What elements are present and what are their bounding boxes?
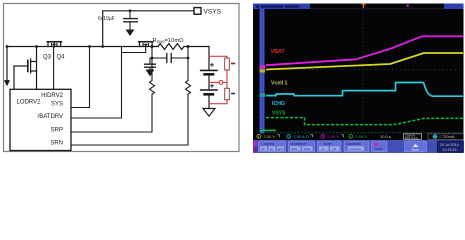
- marker ch2 (teal): [260, 94, 266, 97]
- node Q3 drain: [35, 45, 38, 48]
- svg-text:gnd: gnd: [278, 147, 283, 151]
- scope top edge line: [310, 8, 444, 10]
- scope title bar right: [444, 4, 464, 10]
- svg-text:24 Jul 2014: 24 Jul 2014: [440, 143, 459, 147]
- svg-text:LODRV2: LODRV2: [17, 99, 42, 105]
- trace ICHG (cyan): [266, 83, 463, 97]
- svg-text:off: off: [333, 147, 336, 151]
- readout channel 4: [349, 134, 368, 139]
- label R2 mark: [232, 93, 235, 95]
- transistor Q3: [14, 47, 37, 90]
- svg-text:Q3: Q3: [43, 55, 52, 61]
- svg-text:10:15:15: 10:15:15: [443, 148, 457, 152]
- ground cap 6x10uF: [126, 30, 135, 37]
- svg-text:VSYS: VSYS: [204, 9, 222, 16]
- svg-text:Q4: Q4: [57, 55, 66, 61]
- wire left adapter rail: [6, 47, 8, 81]
- svg-text:1MΩ: 1MΩ: [304, 147, 311, 151]
- battery cell 1: [201, 63, 217, 89]
- resistor balance R1: [225, 58, 230, 70]
- IC box: [10, 89, 71, 150]
- graticule bottom edge: [266, 132, 463, 134]
- svg-text:HIDRV2: HIDRV2: [41, 93, 64, 99]
- menu tab magenta: [254, 141, 257, 146]
- svg-text:ICHG: ICHG: [272, 101, 285, 107]
- node filter right: [187, 57, 190, 60]
- svg-text:VBAT: VBAT: [271, 49, 286, 55]
- scope title bar left: [253, 4, 310, 10]
- node filter left: [151, 57, 154, 60]
- svg-text:∕ 720mA: ∕ 720mA: [439, 134, 455, 139]
- wire balance top (red): [209, 56, 227, 58]
- node cap tap: [129, 9, 132, 12]
- wire SRN filter: [172, 47, 188, 59]
- trace VBAT (magenta): [266, 36, 463, 65]
- svg-text:Bandwidth: Bandwidth: [346, 142, 361, 146]
- button Coupling: [259, 141, 286, 152]
- marker ch4 (green): [260, 130, 276, 132]
- svg-text:on: on: [322, 147, 326, 151]
- readout trigger: [428, 134, 464, 140]
- svg-text:Invert: Invert: [324, 142, 332, 146]
- svg-text:dc: dc: [262, 147, 266, 151]
- strip texture: [261, 11, 263, 131]
- capacitor srp filter: [145, 64, 156, 67]
- trace VSYS (green): [266, 118, 463, 125]
- arrow BATFET body: [144, 44, 148, 47]
- svg-text:10M points: 10M points: [405, 136, 419, 140]
- svg-text:VSYS: VSYS: [272, 111, 286, 117]
- svg-text:ac: ac: [270, 147, 274, 151]
- schematic frame: [4, 4, 240, 152]
- button More: [405, 141, 427, 152]
- menu bar texture: [254, 144, 463, 148]
- button Bandwidth: [344, 141, 369, 152]
- graticule center vertical: [362, 10, 364, 132]
- transistor BATFET: [139, 42, 153, 47]
- svg-text:1.00 A Ω: 1.00 A Ω: [294, 134, 309, 139]
- wire top rail: [7, 46, 209, 48]
- wire ground cap stem: [149, 58, 151, 70]
- svg-text:Coupling: Coupling: [262, 142, 275, 146]
- wire battery drop: [208, 47, 210, 70]
- date box: [438, 141, 464, 152]
- node left rail: [6, 45, 9, 48]
- label R1 mark: [232, 63, 235, 65]
- svg-text:10.0 s: 10.0 s: [380, 134, 391, 139]
- svg-text:Label: Label: [375, 147, 383, 151]
- terminal VSYS: [194, 8, 201, 15]
- button Impedance: [289, 141, 315, 152]
- svg-text:2.00 V: 2.00 V: [264, 134, 276, 139]
- svg-text:Impedance: Impedance: [291, 142, 307, 146]
- readout channel 2: [287, 134, 313, 139]
- svg-text:premium: premium: [350, 147, 362, 151]
- wire /BATDRV gate: [71, 47, 146, 119]
- readout channel 3: [321, 134, 344, 139]
- node SYS rail: [88, 45, 91, 48]
- svg-text:2.00 V: 2.00 V: [328, 134, 340, 139]
- button Invert: [318, 141, 342, 152]
- transistor Q4: [47, 42, 61, 47]
- readout samplerate box: [404, 134, 422, 140]
- battery cell 2: [201, 84, 217, 108]
- svg-text:6x10µF: 6x10µF: [98, 16, 115, 22]
- svg-text:Vcell 1: Vcell 1: [271, 80, 288, 86]
- scope screen background: [253, 4, 464, 153]
- node SRP rail: [151, 45, 154, 48]
- node Vcell1 probe (red): [219, 81, 223, 85]
- scope title text: [256, 5, 299, 7]
- node VSYS rail: [101, 45, 104, 48]
- wire balance mid (red): [209, 70, 227, 88]
- trace Vcell1 (yellow): [266, 53, 463, 70]
- wire HIDRV2 gate: [53, 47, 55, 89]
- button Label: [372, 141, 388, 152]
- ground srp cap: [146, 70, 155, 77]
- marker top magenta dot: [407, 5, 409, 7]
- svg-text:SRN: SRN: [50, 140, 63, 146]
- resistor balance R2: [225, 88, 230, 100]
- resistor Rsns: [158, 44, 184, 50]
- adapter arrow: [4, 80, 10, 86]
- scope left border strip: [260, 9, 265, 134]
- menu bar: [253, 140, 464, 153]
- marker ch3 (magenta): [260, 65, 266, 69]
- svg-text:SYS: SYS: [51, 101, 63, 107]
- ground battery: [203, 109, 215, 117]
- wire SRP filter: [152, 47, 166, 59]
- svg-text:SRP: SRP: [51, 127, 63, 133]
- wire VSYS riser: [103, 11, 194, 47]
- svg-text:50Ω: 50Ω: [292, 147, 298, 151]
- capacitor 6x10uF: [124, 11, 138, 30]
- resistor SRN: [71, 58, 191, 145]
- svg-text:/BATDRV: /BATDRV: [38, 114, 63, 120]
- capacitor filter: [167, 54, 171, 63]
- node SRN rail: [187, 45, 190, 48]
- wire SYS pin: [71, 47, 90, 108]
- svg-text:More: More: [412, 148, 419, 152]
- graticule center horizontal: [266, 69, 463, 71]
- arrow Q4 body: [52, 44, 56, 47]
- readout channel 1: [257, 134, 280, 139]
- resistor SRP: [71, 58, 155, 132]
- svg-text:2.00 V: 2.00 V: [356, 134, 368, 139]
- trigger position marker: [362, 4, 366, 8]
- wire balance bottom (red): [209, 100, 227, 104]
- marker ch1 (yellow): [260, 69, 266, 72]
